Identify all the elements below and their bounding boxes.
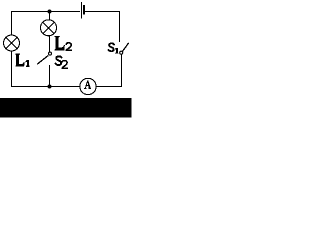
wire L2 to S2 — [49, 36, 51, 52]
label L2 — [55, 36, 72, 51]
wire middle drop to L2 — [49, 12, 51, 20]
label L1 — [15, 54, 29, 67]
wire right vertical upper — [119, 11, 121, 42]
lamp L1 — [4, 35, 20, 51]
switch S2 — [37, 52, 51, 64]
switch S1 — [120, 43, 129, 54]
wire left vertical — [11, 11, 13, 35]
label S2 — [56, 56, 68, 69]
node top junction — [48, 10, 52, 14]
wire S2 to bottom junction — [49, 65, 51, 87]
ammeter A — [80, 78, 96, 94]
wire left vertical lower — [11, 51, 13, 87]
battery B1 — [82, 2, 85, 19]
wire right vertical lower — [121, 55, 123, 87]
wire bottom-left horizontal — [11, 86, 80, 88]
lamp L2 — [41, 20, 57, 36]
black redaction bar — [0, 98, 132, 118]
wire top-right horizontal — [85, 11, 120, 13]
label S1 — [109, 43, 119, 53]
wire top-left horizontal — [11, 11, 80, 13]
node bottom junction — [48, 85, 52, 89]
wire bottom-right horizontal — [96, 86, 122, 88]
